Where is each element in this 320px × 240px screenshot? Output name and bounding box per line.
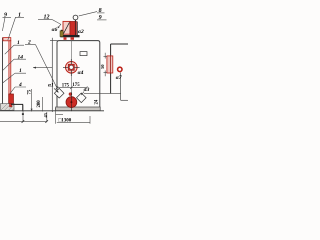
pipe extension vertical x120.6 — [120, 73, 122, 101]
draft hood right cell (solid red) — [70, 21, 77, 35]
left sight-glass diamond — [54, 88, 64, 98]
arrowhead on x31.6 dim — [31, 109, 33, 112]
bottom-left dim extension x23 — [22, 105, 24, 122]
svg-text:50: 50 — [100, 64, 105, 69]
draft hood right edge line — [77, 22, 79, 36]
side view burner block (red) — [9, 94, 14, 104]
svg-text:α3: α3 — [84, 87, 90, 93]
vertical dim line x42.6 — [42, 97, 44, 112]
red square hub — [68, 64, 74, 70]
gas unit crosshair circle (red) — [66, 62, 78, 74]
burner center dot — [70, 101, 72, 103]
side view top flue bar (red) — [3, 38, 11, 41]
leader to 8/9 labels — [79, 12, 97, 16]
draft hood left cell (red) — [63, 21, 70, 34]
hood base bar — [60, 35, 79, 37]
white hub circle — [69, 65, 73, 69]
svg-text:α6: α6 — [52, 27, 58, 33]
svg-text:α7: α7 — [116, 75, 122, 81]
leader into left diamond — [54, 88, 58, 92]
olive valve cap — [61, 30, 63, 31]
bottom-left dim line y118.7 — [0, 121, 47, 123]
burner small knob — [69, 93, 72, 96]
name plate rectangle — [80, 52, 87, 56]
gas pipe end circle (red donut) — [118, 67, 122, 71]
wall vertical line — [110, 44, 112, 93]
leader into right diamond — [82, 92, 84, 95]
dim 175 175 line — [57, 87, 86, 89]
wall line through flange — [110, 56, 112, 73]
axis over burner — [70, 92, 72, 111]
flange dim ticks — [104, 53, 108, 76]
olive valve — [60, 31, 63, 37]
side view burner stub — [10, 104, 12, 107]
right edge lower dim line y93.6 — [84, 93, 121, 95]
mid extension line y67.5 — [33, 67, 52, 69]
svg-text:175: 175 — [62, 84, 70, 89]
svg-text:200: 200 — [37, 100, 42, 108]
chimney thermometer circle — [73, 15, 78, 20]
front view outline — [57, 41, 100, 107]
floor line — [0, 110, 104, 112]
bottom width dim extension left — [55, 108, 57, 124]
wall top line — [111, 43, 128, 45]
pipe extension horizontal y100.3 — [121, 99, 128, 101]
side view left edge — [2, 38, 4, 105]
bottom small dim line y114.6 — [56, 114, 63, 116]
bottom width dim line y122.6 — [57, 122, 90, 124]
centerline axis — [70, 41, 72, 112]
draft hood damper diagonal — [64, 22, 70, 33]
vertical dim line x31.6 — [31, 89, 33, 112]
shelf line — [11, 104, 23, 110]
dim ticks — [56, 86, 88, 89]
svg-text:α4: α4 — [78, 70, 84, 76]
side view hatched base — [1, 104, 15, 111]
bottom width dim extension right — [89, 116, 91, 124]
base hatch lines — [1, 104, 14, 111]
svg-text:α1: α1 — [48, 82, 54, 88]
svg-text:□1300: □1300 — [58, 119, 72, 124]
bottom-left dim extension x46.8 — [46, 112, 48, 122]
burner red circle — [66, 97, 77, 108]
dim ticks bottom-left — [22, 120, 48, 123]
chimney axis line — [74, 20, 76, 35]
height dim line x52.3 — [51, 38, 53, 112]
hood foot left (red) — [64, 37, 67, 40]
crosshair lines — [63, 59, 80, 76]
gas pipe flange (red) — [107, 56, 113, 73]
hood foot right (red) — [71, 37, 75, 40]
side view flue vertical strip (red) — [9, 41, 11, 94]
front view base (gray) — [56, 107, 101, 111]
svg-text:24: 24 — [95, 99, 100, 104]
right sight-glass diamond — [76, 93, 86, 103]
thermometer stem — [74, 20, 76, 22]
svg-text:75: 75 — [27, 89, 32, 94]
svg-text:175: 175 — [72, 83, 80, 88]
svg-text:α2: α2 — [78, 29, 84, 35]
top extension of front view — [50, 40, 58, 42]
